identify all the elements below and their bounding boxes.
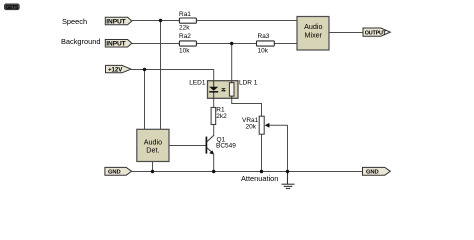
wire +12V down to Audio Det (144, 70, 146, 130)
ground symbol (282, 172, 295, 189)
svg-text:2k2: 2k2 (216, 113, 227, 120)
svg-text:GND: GND (108, 170, 121, 176)
light arrows (222, 89, 227, 92)
wire speech row (132, 20, 180, 22)
svg-text:Ra2: Ra2 (179, 33, 191, 40)
block Audio Mixer U-mixer (297, 17, 329, 51)
port tag +12V (106, 65, 132, 73)
wire R1 to Q1 collector (213, 125, 215, 136)
junction det-gnd (151, 170, 154, 173)
svg-text:+12V: +12V (108, 66, 123, 73)
wire Ra3 to mixer (275, 43, 298, 45)
transistor Q1 BC549 (169, 135, 237, 171)
watermark badge (4, 4, 19, 11)
junction +12V (143, 68, 146, 71)
wiper arrow (268, 124, 288, 126)
svg-text:GETS: GETS (6, 5, 19, 11)
junction vra1-gnd (260, 170, 263, 173)
svg-text:10k: 10k (179, 47, 190, 54)
wire Ra2 to node (197, 43, 257, 45)
svg-text:22k: 22k (179, 24, 190, 31)
LED LED1 (189, 80, 218, 99)
svg-text:10k: 10k (258, 47, 269, 54)
svg-text:20k: 20k (246, 123, 257, 130)
svg-text:Background: Background (61, 37, 100, 46)
junction wiper-gnd (286, 170, 289, 173)
svg-text:GND: GND (366, 170, 379, 176)
wire +12V rail (131, 70, 214, 81)
resistor Ra1 (179, 11, 196, 31)
svg-text:INPUT: INPUT (106, 18, 125, 25)
junction node row1 (159, 19, 162, 22)
resistor R1 (211, 98, 227, 124)
port tag OUTPUT (363, 28, 390, 36)
wire wiper down to rail (287, 125, 289, 171)
svg-text:BC549: BC549 (216, 143, 236, 150)
wire ground rail (132, 171, 363, 173)
resistor Ra3 (257, 33, 275, 54)
svg-text:INPUT: INPUT (106, 41, 125, 48)
svg-text:Ra3: Ra3 (258, 33, 270, 40)
wire node to LDR top (231, 44, 233, 81)
wire mixer to OUTPUT (329, 32, 363, 34)
svg-text:Attenuation: Attenuation (241, 174, 278, 183)
junction emitter-gnd (212, 170, 215, 173)
LDR LDR1 (229, 80, 257, 99)
port tag INPUT (Background) (105, 40, 132, 48)
resistor Ra2 (179, 33, 196, 54)
wire LDR to VRa1 (232, 98, 262, 116)
wire background row (132, 43, 180, 45)
svg-text:LDR 1: LDR 1 (239, 80, 258, 87)
svg-text:Ra1: Ra1 (179, 11, 191, 18)
svg-text:Mixer: Mixer (305, 30, 323, 39)
wire VRa1 bottom to rail (261, 134, 263, 171)
svg-text:Det.: Det. (146, 146, 159, 155)
svg-text:LED1: LED1 (189, 80, 206, 87)
optocoupler box LED1/LDR1 (208, 81, 239, 99)
svg-text:OUTPUT: OUTPUT (365, 30, 387, 36)
port tag GND (right) (363, 167, 391, 175)
svg-text:Speech: Speech (62, 17, 87, 26)
wire Audio Det bottom to rail (152, 162, 154, 172)
port tag INPUT (Speech) (105, 17, 132, 25)
port tag GND (left) (105, 167, 132, 175)
potentiometer VRa1 (242, 116, 288, 134)
wire Ra1 to mixer (197, 20, 298, 22)
wire speech down to Audio Det (160, 21, 162, 130)
junction node row2 (230, 42, 233, 45)
block Audio Det (137, 129, 169, 161)
